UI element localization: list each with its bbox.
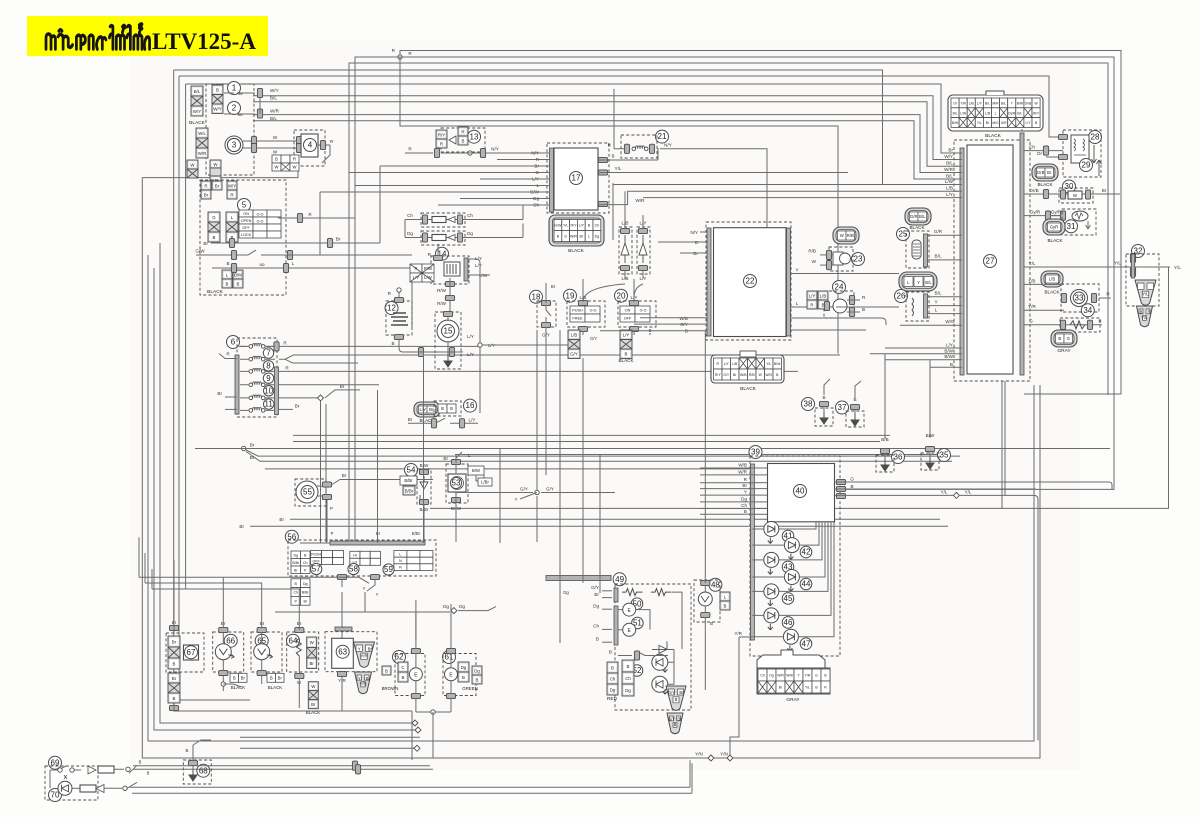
svg-text:Br: Br (443, 456, 448, 461)
svg-text:B/L: B/L (946, 174, 953, 179)
wire L stub (958, 313, 962, 315)
svg-text:38: 38 (804, 400, 813, 409)
wire B up 37 (855, 381, 861, 398)
svg-text:L/Y: L/Y (579, 224, 585, 228)
wire left frame 5 to bottom junctions (174, 70, 412, 711)
svg-text:GRAY: GRAY (1057, 348, 1071, 354)
svg-text:36: 36 (894, 453, 903, 462)
label 9 fuse (263, 373, 273, 383)
wire L/W feed 27 (848, 184, 955, 186)
connector 24 left lower (818, 291, 828, 309)
connector 37 (850, 404, 859, 409)
connector LB top (620, 228, 629, 233)
wire B into 49 (602, 641, 612, 643)
connector 35 (925, 446, 934, 451)
junction R node (398, 55, 402, 59)
ground 36 (881, 459, 889, 471)
enclosure 24 (824, 291, 854, 318)
svg-text:L/Y: L/Y (420, 407, 427, 412)
svg-text:L/Y: L/Y (475, 256, 482, 261)
svg-text:Y/L: Y/L (977, 121, 982, 125)
connector horn b (322, 494, 331, 499)
svg-text:B: B (237, 281, 240, 286)
svg-text:Y: Y (795, 268, 798, 273)
svg-text:B: B (625, 352, 628, 357)
stub (1107, 193, 1109, 195)
wire L feed (355, 185, 541, 187)
label 4 starter relay (304, 139, 317, 152)
label 34 (1081, 304, 1094, 317)
connector triangle 63 (354, 642, 375, 667)
svg-text:B: B (226, 261, 229, 266)
enclosure meter 39 (750, 456, 840, 656)
enclosure 62 (395, 654, 425, 696)
wire drop 64 (298, 589, 300, 616)
svg-text:Dg: Dg (459, 604, 465, 609)
connector 65 top (257, 627, 266, 632)
label 1 engine stop switch (228, 82, 241, 95)
svg-text:B: B (462, 675, 465, 680)
enclosure 66 (213, 632, 244, 672)
wire fuse row 1 stubs (240, 345, 275, 347)
meter left bus (750, 464, 754, 640)
wire G out to frame (846, 482, 1112, 489)
connector 31 in (1060, 211, 1065, 220)
connector Y/L out (836, 493, 845, 498)
svg-text:27: 27 (986, 257, 995, 266)
wire R/W down 2 (449, 304, 451, 316)
meter GRAY cells (758, 669, 830, 693)
wire L link 22-26 (836, 306, 899, 308)
connector stack 62 (398, 662, 408, 682)
svg-text:B: B (674, 722, 677, 727)
wire B/L stub (958, 259, 962, 261)
fuse element 2 (249, 356, 265, 361)
connector 62 left (382, 666, 391, 675)
diode 52a (652, 641, 674, 653)
svg-text:Y: Y (515, 497, 518, 502)
bulb 50 (623, 603, 636, 616)
wire Ch feed (438, 204, 541, 206)
resistor 49b (651, 589, 672, 596)
wire harness drop b (1004, 381, 1006, 495)
connector 67 low (169, 705, 178, 710)
label 26 (895, 290, 908, 303)
svg-text:R: R (1147, 310, 1150, 315)
wire 68 stem (192, 745, 194, 769)
svg-text:57: 57 (312, 565, 321, 574)
label 35 ground (938, 449, 951, 462)
svg-text:23: 23 (854, 255, 863, 264)
svg-text:Br: Br (310, 661, 315, 666)
label 70 (49, 789, 62, 802)
connector 63 bottom (337, 671, 346, 676)
main block left bus (960, 148, 964, 375)
wire LED 41 feed (779, 522, 816, 529)
svg-text:Br: Br (948, 148, 953, 153)
label 37 ground (836, 401, 849, 414)
switch 1 contact block (212, 85, 223, 114)
wire mid drops right (560, 330, 600, 583)
svg-text:G/Y: G/Y (723, 373, 730, 377)
wire left frame 4 to bottom junctions (160, 243, 415, 723)
svg-text:22: 22 (746, 277, 755, 286)
svg-text:Y: Y (363, 586, 366, 591)
wire R from fuse 7 right (279, 345, 480, 347)
connector triangle 52 (666, 686, 686, 710)
wire R out 33 (1099, 297, 1111, 299)
ignition coil 25 (912, 240, 921, 259)
label 55 horn (301, 486, 314, 499)
connector Br (212, 181, 222, 190)
label 69 (49, 756, 62, 769)
relay 14 connector grid (410, 264, 434, 282)
svg-text:42: 42 (802, 548, 811, 557)
wire bus top-6 Br into harness bus (186, 84, 958, 153)
label 47 (800, 638, 812, 650)
wire L/Y path (634, 215, 643, 298)
relay 14 coil (444, 262, 460, 276)
main block right bus (1020, 133, 1024, 375)
svg-text:R: R (204, 183, 207, 188)
relay 14 bar (464, 258, 468, 281)
wire W down 64 (298, 678, 300, 708)
connector R/W 2 (445, 295, 454, 300)
wire B into 68 (193, 740, 211, 745)
switch 57 table (311, 551, 344, 565)
connector 33b (1091, 293, 1096, 302)
svg-text:W/B: W/B (738, 463, 747, 468)
svg-text:Br: Br (278, 675, 283, 680)
wire Br left into bus (225, 396, 237, 398)
wire Or/B out (1024, 193, 1120, 195)
connector BLACK 16 (414, 402, 440, 417)
wire drops 61 62 (416, 600, 451, 640)
magneto 15 (437, 320, 459, 342)
wire 23 link (837, 244, 839, 247)
wire switch 69 (50, 766, 81, 770)
wire mid bundle 4 (246, 450, 960, 456)
svg-text:G/R: G/R (910, 214, 918, 219)
wire bottom feed stubs (139, 537, 152, 589)
connector 26 oval 3-cell (899, 272, 937, 291)
connector Br right (327, 238, 332, 247)
svg-text:31: 31 (1067, 222, 1076, 231)
connector grid below 3 (272, 155, 299, 171)
wire B link 61-62 (416, 711, 451, 713)
wire switch 19 stem (582, 279, 584, 476)
wire L/W row from 613 (613, 184, 848, 186)
svg-text:B: B (710, 621, 713, 626)
label 66 flasher lamp (224, 634, 237, 647)
svg-text:B/L: B/L (953, 111, 958, 115)
connector battery - (394, 334, 403, 339)
label 19 (564, 289, 577, 302)
svg-text:BLACK: BLACK (740, 386, 757, 392)
wire mid bundle 6 (455, 454, 946, 456)
svg-text:G: G (815, 674, 818, 678)
svg-text:68: 68 (199, 766, 208, 775)
cluster connector grid upper (291, 551, 310, 574)
bus 49 upper (614, 588, 618, 602)
svg-text:B/Br: B/Br (405, 488, 414, 493)
resistor 49a (622, 589, 643, 596)
junction L/Y (478, 343, 482, 347)
svg-text:B: B (862, 307, 865, 312)
flasher 53 cross (451, 477, 464, 490)
connector 24c (849, 307, 854, 316)
wire Ch into meter (700, 508, 755, 510)
wire R out 24 (847, 299, 860, 301)
svg-text:Br: Br (594, 592, 599, 597)
svg-text:Y/L: Y/L (805, 686, 810, 690)
wire B-L fuse row (212, 267, 292, 269)
wire W/Y out of 1 (224, 92, 255, 94)
wire Br out lower (279, 408, 293, 410)
connector stack 61 (458, 662, 469, 682)
wire 69 out (114, 765, 137, 773)
connector 65 BB (267, 673, 284, 682)
wire G/R stub (958, 234, 962, 236)
connector R/W 1 (445, 281, 454, 286)
svg-text:B: B (462, 138, 465, 143)
indicator LED 47 (783, 629, 798, 651)
enclosure 18 (537, 301, 556, 327)
main block 27 body (967, 145, 1013, 374)
wire 49 right leg (672, 592, 682, 649)
svg-text:B/Br: B/Br (292, 561, 300, 565)
svg-text:W/Y: W/Y (1033, 111, 1040, 115)
svg-text:L/B: L/B (571, 333, 578, 338)
wire B magneto left (410, 351, 460, 353)
svg-text:28: 28 (1091, 133, 1100, 142)
svg-text:LTV125-A: LTV125-A (152, 29, 256, 54)
svg-text:B: B (596, 636, 599, 641)
wire 69 rows right (133, 766, 433, 770)
svg-text:L/Y: L/Y (467, 334, 474, 339)
label 5 main switch (238, 199, 251, 212)
connector OrB out (1043, 189, 1048, 198)
svg-text:O-O: O-O (640, 309, 647, 313)
svg-text:Y/N: Y/N (720, 752, 728, 757)
svg-text:21: 21 (658, 132, 667, 141)
svg-text:RED: RED (607, 696, 618, 702)
regulator 22 body (714, 228, 787, 337)
wire L/Y vertical (479, 263, 481, 413)
starter relay 4 body (301, 134, 318, 157)
wire Y/R tap (739, 636, 752, 638)
svg-text:Ch: Ch (293, 591, 298, 595)
label 18 (530, 290, 543, 303)
connector B/Br 54 (400, 476, 417, 485)
wire R drop to mid rail (400, 57, 838, 354)
indicator LED 45 (764, 584, 779, 606)
wire 63 stem (341, 616, 343, 690)
wire Br row 5 (211, 242, 291, 244)
wire B/W into 27 low (955, 353, 962, 355)
svg-text:L: L (468, 453, 471, 458)
svg-text:L/W: L/W (960, 111, 967, 115)
connector 61 bottom (446, 693, 455, 698)
svg-text:Y/R: Y/R (361, 653, 368, 658)
svg-text:Y: Y (376, 592, 379, 597)
wire L/B stub into 27 (955, 190, 962, 192)
coil 26 bar (924, 294, 928, 318)
svg-text:Br: Br (250, 443, 255, 448)
connector 34b (1087, 320, 1092, 329)
wire L/Y low feed (885, 347, 955, 349)
wire Br into CDI (541, 165, 550, 167)
svg-text:BLACK: BLACK (568, 248, 585, 254)
connector B bat2 (449, 347, 454, 356)
wire L/W drop at 613 (612, 183, 614, 240)
diode 70 (96, 785, 104, 793)
svg-text:W: W (273, 150, 278, 155)
junction bottom 3 (414, 745, 420, 751)
svg-text:B: B (385, 668, 388, 673)
svg-text:W/R: W/R (636, 198, 646, 203)
svg-text:N/Y: N/Y (531, 151, 539, 156)
svg-text:BLACK: BLACK (1044, 290, 1060, 295)
regulator 16-pin connector shell (711, 351, 784, 383)
connector Br row (229, 238, 234, 247)
wire R-N/Y fuse 21 (614, 148, 674, 150)
unit 67 body (184, 645, 199, 660)
diode L/Y (639, 235, 647, 263)
svg-text:HI: HI (353, 553, 357, 557)
enclosure regulator 22 (706, 222, 791, 340)
junction 66 (221, 682, 225, 686)
wire L/Y from relay down (468, 259, 480, 337)
connector L-B small (222, 270, 232, 288)
wire L out of 22 (791, 306, 836, 308)
wire mid bundle 2 (293, 441, 880, 443)
svg-text:54: 54 (407, 466, 416, 475)
svg-text:B: B (609, 650, 612, 655)
svg-text:W/R: W/R (570, 235, 577, 239)
connector Dg a (422, 233, 427, 242)
svg-text:B: B (226, 281, 229, 286)
svg-text:Y: Y (917, 280, 920, 285)
svg-text:B: B (822, 395, 825, 400)
wire bus top-3 to right frame (349, 63, 1108, 543)
connector W-a (251, 136, 256, 145)
switch 59 table (394, 551, 433, 571)
connector 16a (431, 419, 436, 428)
svg-text:L: L (399, 553, 401, 557)
fuse 69 body (98, 766, 114, 773)
wire R/W down (449, 278, 451, 304)
wire B fuse 11 right (279, 397, 320, 399)
label 33 sensor (1073, 292, 1085, 304)
svg-text:24: 24 (835, 283, 844, 292)
fuse 21 element (632, 146, 648, 151)
wire harness 24-pin connector shell (948, 91, 1043, 131)
svg-text:63: 63 (338, 647, 347, 656)
label 6 fuse box (227, 336, 240, 349)
connector 13 in (434, 148, 439, 157)
fuse element 3 (249, 368, 265, 373)
wire Br out 30 (1093, 193, 1108, 195)
svg-text:R/B: R/B (808, 249, 816, 254)
connector 65 bottom (257, 670, 266, 675)
svg-text:M/G: M/G (992, 121, 999, 125)
wire GyR link (1052, 215, 1063, 217)
wire LED 47 feed (798, 522, 834, 637)
label 3 starter switch (228, 139, 241, 152)
connector Ch a (422, 215, 427, 224)
svg-text:B: B (275, 157, 278, 162)
enclosure 16 (434, 401, 461, 416)
svg-text:L: L (995, 111, 997, 115)
title block: yellow highlight (27, 16, 268, 56)
connector BB 16 (438, 404, 456, 413)
label 25 coil (897, 228, 910, 241)
enclosure switch cluster 56 (288, 540, 436, 576)
enclosure relay 28 (1063, 130, 1101, 177)
wire mid bundle 3b (195, 448, 1110, 450)
enclosure 65 (251, 632, 282, 672)
title Thai text (vector approximation) (46, 24, 150, 49)
svg-text:W/R: W/R (777, 674, 784, 678)
wire Or into 28 (1046, 156, 1058, 158)
junction bottom 2 (415, 727, 421, 733)
svg-text:67: 67 (187, 648, 196, 657)
svg-text:W/R: W/R (738, 469, 748, 474)
svg-text:L/Br: L/Br (481, 480, 489, 485)
svg-text:Br: Br (217, 391, 222, 396)
svg-text:26: 26 (897, 292, 906, 301)
resistor 34 (1070, 321, 1085, 329)
svg-text:B/L: B/L (919, 214, 926, 219)
wire W/R from comp 2 (253, 115, 958, 173)
wire fuse 7 taps (239, 345, 275, 347)
svg-text:2: 2 (232, 104, 237, 113)
enclosure 69-70 (45, 766, 98, 800)
indicator LED 44 (784, 570, 799, 592)
svg-text:oo: oo (237, 112, 243, 117)
wire Br stub into 27 (955, 152, 962, 154)
svg-text:Ch: Ch (595, 224, 600, 228)
wire R bus top-1 to right frame (400, 51, 1121, 395)
svg-text:Y/N: Y/N (695, 752, 703, 757)
bulb 65 (254, 644, 273, 660)
junction Dg diamond (451, 608, 457, 614)
wire bottom bundle 1 (240, 736, 420, 738)
connector Ch out (1043, 146, 1048, 155)
wire 66 stem (222, 616, 224, 691)
svg-text:BLACK: BLACK (207, 289, 224, 295)
junction 13 (468, 151, 472, 155)
wire LED 43 left (752, 559, 763, 561)
svg-text:G/Y: G/Y (590, 336, 597, 341)
wire L/W stub into 27 (955, 184, 962, 186)
connector stack 67 (168, 636, 180, 669)
wire B/L link 1-2 (259, 97, 261, 114)
wire W/R stub into 27 (955, 172, 962, 174)
label 28 relay (1089, 131, 1102, 144)
connector 28 lower (1058, 154, 1067, 159)
wire W/R out of 17 to harness (598, 191, 958, 204)
wire bus stub up (1021, 129, 1023, 131)
svg-text:L/B: L/B (1029, 278, 1036, 283)
connector 54 bottom (419, 499, 428, 504)
connector 30b (1085, 190, 1090, 199)
connector 23a (826, 250, 831, 259)
svg-text:OFF: OFF (242, 226, 250, 230)
connector 34a (1060, 320, 1065, 329)
wire Br horn (332, 480, 433, 485)
